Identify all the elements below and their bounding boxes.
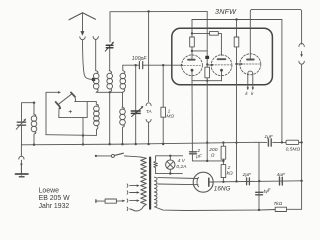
svg-text:k: k <box>245 91 248 96</box>
anode resistor R1 <box>190 20 195 59</box>
junction <box>206 80 208 82</box>
grid resistor R4 <box>205 67 210 81</box>
wire L2 line down to bus <box>109 92 111 144</box>
node grid leak junction <box>135 64 137 66</box>
ground symbol <box>16 166 28 177</box>
svg-text:2: 2 <box>197 148 201 154</box>
svg-text:Ω: Ω <box>211 152 215 158</box>
resistor 0,5MOhm <box>286 140 302 144</box>
junction <box>258 209 260 211</box>
wire tube1 cathode down <box>191 81 193 153</box>
junction x=282 <box>281 141 283 143</box>
filament dropper resistor <box>96 199 125 203</box>
wire coil bottoms y=92.3 <box>96 91 122 93</box>
resistor 1MOhm <box>161 65 166 144</box>
rectifier tube 16NG <box>193 172 213 192</box>
mains switch <box>95 153 141 157</box>
tuning capacitor C1 <box>16 103 35 145</box>
junction <box>109 91 111 93</box>
lamp 4V 0.2A <box>156 155 183 175</box>
TA jack connector pair <box>146 103 151 144</box>
svg-text:16NG: 16NG <box>214 185 231 192</box>
junction <box>206 142 208 144</box>
bus junctions <box>33 141 225 145</box>
wire frame to bus <box>82 118 84 145</box>
capacitor 2uF B+ <box>247 178 250 185</box>
junction <box>235 18 237 20</box>
power transformer core <box>149 158 151 209</box>
wire grid leak down to bus <box>135 65 137 144</box>
wires secondary to 16NG <box>158 178 198 185</box>
detection branch: 1uF capacitor <box>259 139 286 146</box>
svg-text:EB 205 W: EB 205 W <box>39 195 71 202</box>
transformer 4V winding <box>154 156 158 174</box>
tube V2 <box>206 55 232 81</box>
tube box 3NFW <box>172 28 273 85</box>
svg-text:MΩ: MΩ <box>166 114 174 120</box>
ground connector <box>19 145 24 174</box>
resistor R2 horizontal <box>209 32 221 56</box>
antenna tap terminal (black square) <box>92 78 95 81</box>
transformer primary winding <box>130 157 146 211</box>
B+ wire from 16NG <box>213 181 301 182</box>
junctions right rail <box>300 141 302 182</box>
junction <box>222 160 224 162</box>
svg-text:μF: μF <box>195 154 203 160</box>
svg-text:3NFW: 3NFW <box>215 7 237 16</box>
junction <box>82 134 84 136</box>
svg-text:Loewe: Loewe <box>39 187 59 194</box>
coupling capacitor (black) <box>205 56 209 59</box>
wire anode tap <box>192 50 207 52</box>
trimmer capacitor antenna <box>105 42 114 52</box>
svg-text:kΩ: kΩ <box>227 171 233 177</box>
svg-text:2μF: 2μF <box>242 172 252 178</box>
wire x=282 from HT <box>281 20 283 143</box>
top bus wire y=11.5 <box>110 11 207 42</box>
bottom return wire <box>155 207 275 211</box>
capacitor 100pF <box>123 62 163 69</box>
switch frame wires <box>59 102 97 118</box>
HT wire y=19.5 <box>192 19 282 21</box>
svg-text:200: 200 <box>208 147 217 153</box>
svg-text:k: k <box>251 91 254 96</box>
svg-text:4 V: 4 V <box>178 158 186 164</box>
node R1 top <box>191 32 193 34</box>
coil L4 <box>94 102 100 126</box>
coil L6 below L3 <box>120 92 126 144</box>
junction <box>206 160 208 162</box>
svg-text:4μF: 4μF <box>262 187 272 195</box>
svg-text:2: 2 <box>227 165 231 171</box>
node 1M junction <box>162 64 164 66</box>
capacitor 4uF B+ <box>280 177 283 185</box>
antenna <box>69 13 96 32</box>
smoothing branch wire x=259 <box>258 142 260 210</box>
junctions on B+ <box>222 180 260 183</box>
junction <box>147 10 149 12</box>
wire grid3 line down <box>236 64 238 181</box>
wire antenna lead to coil tap <box>83 40 93 80</box>
antenna plug connector <box>80 31 85 39</box>
tube V1 <box>182 55 203 81</box>
transformer secondary winding <box>154 177 157 207</box>
wire cathode R4 line down <box>206 81 208 161</box>
svg-text:TA: TA <box>146 109 152 114</box>
spare antenna socket <box>93 37 98 71</box>
trimmer capacitor on grid leak line <box>131 106 143 117</box>
coil L5 <box>31 103 37 145</box>
svg-text:0,5MΩ: 0,5MΩ <box>286 147 301 153</box>
wire switch to coil4 bottom <box>46 125 98 135</box>
tube V3 <box>237 54 261 90</box>
svg-text:100pF: 100pF <box>132 56 148 62</box>
wire cap to resistor R4 <box>206 59 208 67</box>
svg-text:4μF: 4μF <box>277 172 286 178</box>
wire TA line from top bus <box>148 12 150 102</box>
svg-text:7kΩ: 7kΩ <box>273 201 282 207</box>
wire anode tube3 up <box>250 9 301 58</box>
node anode tube1 <box>191 50 193 52</box>
coil L3 <box>120 65 126 92</box>
main bus wire (heater rail) <box>21 142 259 145</box>
resistor 2kOhm <box>221 165 226 182</box>
junction <box>235 142 237 144</box>
capacitor 2uF cathode <box>190 152 224 161</box>
node grid tube3 <box>235 63 237 65</box>
junction <box>33 102 35 104</box>
capacitor 4uF lower <box>256 192 263 195</box>
wave switch arrow wire <box>46 91 61 135</box>
coil L1 antenna <box>93 71 99 93</box>
resistor 200 Ohm <box>221 143 226 165</box>
wire to R2 <box>192 32 209 34</box>
wave switch blade <box>56 92 76 109</box>
svg-text:Jahr 1932: Jahr 1932 <box>39 203 70 210</box>
svg-text:1μF: 1μF <box>264 134 273 140</box>
coil L2 <box>107 48 113 93</box>
resistor 7kOhm <box>275 207 301 211</box>
speaker jack connector <box>299 44 304 210</box>
wire cathode bus in box <box>192 80 222 82</box>
wire grid tube1 <box>163 64 181 66</box>
primary taps <box>127 184 140 211</box>
resistor R3 <box>234 20 239 65</box>
coupling line from top bus <box>206 11 208 55</box>
svg-text:0,2A: 0,2A <box>176 164 186 170</box>
